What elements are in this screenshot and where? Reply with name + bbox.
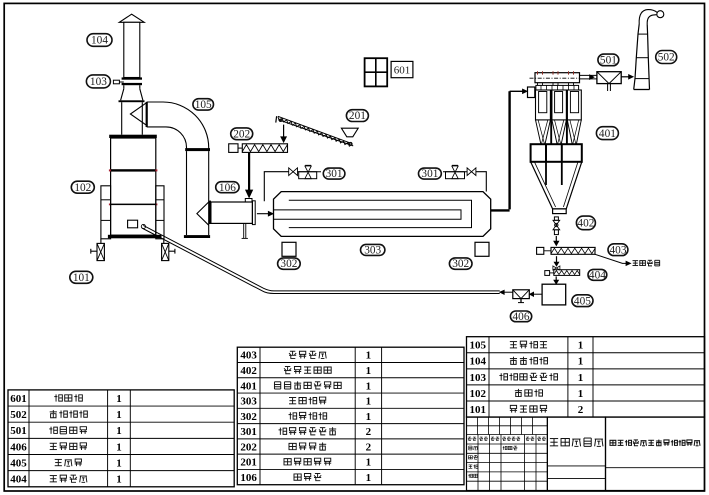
label 201: [346, 110, 368, 122]
label 202: [231, 128, 253, 140]
left parts table: [8, 405, 234, 407]
probe 103: [113, 80, 119, 84]
svg-text:301: 301: [421, 168, 438, 180]
electric cabinet 601: [365, 58, 388, 86]
svg-text:1: 1: [366, 472, 372, 484]
title block: [467, 417, 548, 490]
label 301 right: [419, 168, 442, 179]
hopper 201: [341, 128, 358, 137]
svg-text:1: 1: [578, 372, 584, 384]
vessel body 102: [111, 138, 156, 235]
svg-text:2: 2: [578, 404, 584, 416]
duct chevron top: [130, 103, 146, 125]
cyclone frame bars: [550, 90, 552, 144]
svg-text:303: 303: [364, 245, 381, 257]
svg-text:103: 103: [90, 76, 107, 88]
svg-text:105: 105: [470, 340, 487, 352]
drum support 302 right: [475, 242, 489, 256]
arrow 404 to 405: [555, 276, 557, 280]
cyclone inlet box: [528, 87, 535, 98]
cone outlet box: [553, 209, 567, 214]
valve group 301 right: [443, 171, 467, 173]
svg-text:202: 202: [240, 441, 257, 453]
svg-text:106: 106: [219, 182, 236, 194]
screw feeder 202 body: [242, 144, 287, 153]
svg-text:2: 2: [366, 441, 372, 453]
chimney cap 104: [119, 14, 144, 22]
svg-text:1: 1: [116, 441, 122, 453]
svg-text:403: 403: [240, 350, 257, 362]
label 301 left: [323, 168, 345, 179]
svg-text:1: 1: [366, 380, 372, 392]
svg-text:106: 106: [240, 472, 257, 484]
cyclone bodies: [536, 90, 551, 120]
svg-text:402: 402: [577, 218, 594, 230]
drum 303 outline: [274, 192, 491, 237]
collecting bin: [531, 144, 582, 162]
combustion fan 101 right: [163, 239, 165, 244]
product text: [633, 261, 639, 266]
label 302 left: [278, 258, 301, 269]
chamber out arrow: [257, 213, 268, 215]
company box: [606, 417, 705, 490]
svg-text:1: 1: [578, 356, 584, 368]
label 303: [361, 244, 385, 255]
svg-text:101: 101: [73, 272, 90, 284]
valve bands 103: [122, 77, 142, 79]
svg-text:201: 201: [349, 110, 366, 122]
chamber body 106: [211, 202, 253, 223]
screw feeder 202 motor: [229, 144, 238, 153]
label 104: [87, 34, 112, 47]
svg-text:1: 1: [578, 388, 584, 400]
svg-text:104: 104: [470, 356, 487, 368]
svg-text:105: 105: [195, 99, 212, 111]
svg-text:1: 1: [116, 425, 122, 437]
arrow 402 to 403: [555, 236, 557, 242]
left bracket: [101, 186, 111, 239]
svg-text:501: 501: [10, 425, 27, 437]
fuel fan 406: [513, 290, 530, 299]
product line: [595, 254, 626, 263]
svg-text:406: 406: [513, 311, 530, 323]
cyclone tube sheet: [536, 85, 579, 90]
svg-text:401: 401: [599, 128, 616, 140]
label 401: [596, 127, 618, 140]
svg-text:1: 1: [366, 457, 372, 469]
svg-text:502: 502: [10, 409, 27, 421]
label 404: [588, 269, 607, 280]
middle parts table: [237, 361, 464, 363]
svg-text:1: 1: [366, 396, 372, 408]
label 501: [598, 54, 619, 66]
svg-text:104: 104: [91, 35, 108, 47]
svg-text:401: 401: [240, 380, 257, 392]
vessel band upper: [111, 169, 156, 171]
stack 104: [124, 22, 140, 77]
stack lower: [123, 85, 125, 89]
vessel top flange: [109, 135, 157, 138]
label 105: [193, 99, 214, 110]
duct vertical: [186, 151, 188, 235]
svg-text:301: 301: [326, 168, 343, 180]
line 405 to 406: [534, 293, 543, 295]
drawing title text: [550, 439, 558, 446]
belt conveyor 201: [278, 116, 353, 144]
drum inner flights: [289, 200, 472, 227]
svg-text:301: 301: [240, 426, 257, 438]
label 106: [216, 182, 239, 193]
label 403: [608, 244, 628, 256]
flare transition: [121, 89, 143, 101]
door: [128, 220, 138, 228]
duct base: [184, 235, 210, 238]
svg-text:501: 501: [600, 55, 617, 67]
title block tiny text: [468, 437, 472, 441]
drawing title box: [547, 417, 605, 490]
combustion fan 101 left: [100, 239, 102, 244]
neck section: [121, 102, 123, 135]
duct elbow: [147, 102, 209, 150]
svg-text:1: 1: [366, 365, 372, 377]
label 102: [71, 181, 94, 193]
arrow fan to chimney: [621, 76, 628, 78]
label 402: [576, 216, 595, 230]
svg-text:1: 1: [366, 411, 372, 423]
label 406: [510, 311, 531, 322]
svg-text:405: 405: [574, 295, 591, 307]
chamber leg: [243, 223, 245, 238]
svg-text:404: 404: [589, 269, 606, 281]
svg-text:502: 502: [658, 52, 675, 64]
label 601: [391, 61, 413, 77]
label 302 right: [449, 258, 472, 269]
screw conveyor 403: [537, 247, 544, 254]
right parts table: [467, 352, 705, 354]
svg-text:1: 1: [116, 474, 122, 486]
svg-text:1: 1: [578, 340, 584, 352]
rotary valve 402: [554, 217, 558, 220]
svg-text:102: 102: [74, 182, 91, 194]
belt drop arrow: [283, 125, 285, 138]
svg-text:2: 2: [366, 426, 372, 438]
drum support 302 left: [282, 242, 296, 256]
cyclone manifold: [535, 73, 580, 83]
svg-text:1: 1: [116, 409, 122, 421]
svg-text:101: 101: [470, 404, 487, 416]
svg-text:303: 303: [240, 396, 257, 408]
svg-text:1: 1: [116, 457, 122, 469]
cyclone inner tubes: [539, 92, 547, 113]
right bracket: [156, 186, 164, 239]
svg-text:302: 302: [280, 258, 297, 270]
svg-text:601: 601: [10, 393, 27, 405]
discharge cone: [531, 162, 553, 209]
vessel band lower: [111, 204, 156, 206]
svg-text:102: 102: [470, 388, 487, 400]
svg-text:103: 103: [470, 372, 487, 384]
exhaust chimney 502: [634, 24, 640, 89]
svg-text:405: 405: [10, 457, 27, 469]
cyclone cones: [536, 120, 541, 144]
pipe to left valve group: [264, 172, 288, 202]
label 103: [86, 75, 110, 88]
svg-text:601: 601: [394, 64, 411, 76]
furnace base: [108, 235, 162, 239]
svg-text:302: 302: [240, 411, 257, 423]
crusher 405: [542, 284, 566, 305]
label 101: [70, 271, 93, 283]
screw conveyor 404: [545, 271, 550, 276]
manifold outlet duct: [580, 74, 598, 76]
svg-text:1: 1: [116, 393, 122, 405]
label 405: [572, 295, 593, 307]
drum outlet duct: [491, 209, 510, 211]
svg-text:403: 403: [610, 244, 627, 256]
company name text: [610, 440, 616, 445]
main fan 501: [597, 72, 621, 84]
chamber top box: [245, 199, 252, 203]
svg-text:201: 201: [240, 457, 257, 469]
small valve 404: [553, 266, 557, 270]
svg-text:202: 202: [233, 128, 250, 140]
duct chevron bottom: [197, 202, 209, 225]
label 502: [656, 51, 677, 64]
flange: [119, 100, 145, 102]
valve group 301 left: [289, 168, 293, 176]
feed arrow to chamber: [248, 153, 250, 191]
arrow 403 to 404: [556, 256, 558, 262]
chimney gooseneck: [639, 10, 657, 25]
svg-text:1: 1: [366, 350, 372, 362]
svg-text:404: 404: [10, 474, 27, 486]
svg-text:406: 406: [10, 441, 27, 453]
fuel pipe to furnace: [143, 225, 499, 291]
duct flange: [185, 148, 210, 151]
svg-text:302: 302: [452, 258, 469, 270]
svg-text:402: 402: [240, 365, 257, 377]
